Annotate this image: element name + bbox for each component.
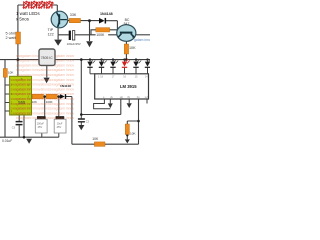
wire top LED string [18, 4, 57, 6]
svg-text:0.01uF: 0.01uF [2, 139, 12, 143]
LED bar 4 red [122, 58, 130, 73]
svg-text:swagatam innovationsswagatam i: swagatam innovationsswagatam innov [16, 68, 74, 72]
wire BC547 right to edge [136, 34, 151, 36]
svg-text:swagatam innovationsswagatam i: swagatam innovationsswagatam innov [16, 73, 74, 77]
ground arrow mid cap [78, 125, 84, 130]
diode 1N4148 mid [60, 94, 65, 99]
svg-text:100K: 100K [46, 100, 53, 104]
wire junction to 555 top [17, 60, 19, 77]
ground arrow mid [86, 41, 93, 47]
capacitor 100uF/25V [69, 31, 71, 40]
junction dot 33K-diode [88, 19, 91, 22]
svg-text:2 watt: 2 watt [6, 36, 17, 40]
label 100K with bg [96, 32, 109, 36]
svg-text:LM 3915: LM 3915 [120, 84, 137, 89]
transistor BC547 [117, 25, 136, 42]
junction dot pin5 [137, 120, 140, 123]
IC 555 [10, 76, 32, 115]
resistor 100K [96, 28, 110, 32]
LED bar 3 [110, 58, 118, 73]
svg-text:7805 IC: 7805 IC [41, 56, 53, 60]
svg-text:5 ohm: 5 ohm [6, 31, 17, 35]
resistor chain R 10K [32, 94, 43, 99]
junction dot supply [17, 58, 20, 61]
capacitor mid C2 [80, 115, 82, 119]
wire bottom run [72, 143, 139, 145]
wire diode2 out down to bottom [66, 97, 72, 145]
wire 555 output pin [32, 96, 34, 98]
LED bar 2 [99, 58, 107, 73]
svg-text:100uF: 100uF [37, 122, 45, 126]
wire signal drop x81.3 [80, 60, 82, 115]
wire branch to 10K vertical [127, 121, 138, 124]
svg-text:122: 122 [48, 32, 54, 36]
resistor chain R 100K [46, 94, 57, 99]
junction dot pin wire [80, 113, 83, 116]
svg-text:33K: 33K [70, 13, 77, 17]
wire base to 33K and diode line [67, 21, 118, 35]
LED bar 5 [133, 58, 141, 73]
capacitor A 100uF [35, 116, 47, 133]
svg-text:547: 547 [124, 22, 130, 26]
wire LM pin gnd stub [109, 99, 111, 103]
wire LM3915 ground pins [129, 99, 147, 104]
wire BC547 collector to 10K to bus [125, 41, 127, 60]
resistor 33K [69, 18, 80, 22]
wire TIP122 emitter [57, 27, 59, 35]
junction dot 10K bus [125, 58, 128, 61]
svg-text:10K: 10K [129, 46, 136, 50]
wire emitter rail to BC547 [58, 34, 117, 36]
svg-text:100K: 100K [96, 33, 105, 37]
svg-text:1 watt LEDs: 1 watt LEDs [16, 11, 40, 16]
LED bar 1 [87, 58, 95, 73]
IC 7805 [39, 49, 55, 65]
wire main horizontal bus [0, 59, 150, 61]
wire pin row horizontal [81, 99, 121, 115]
wire LED1 to LM3915 corner [90, 73, 95, 75]
wire left supply vertical [17, 5, 19, 60]
junction dot signal drop [80, 58, 83, 61]
svg-text:swagatam innovationsswagatam i: swagatam innovationsswagatam innov [16, 116, 74, 120]
ground arrow bottom left [26, 139, 32, 144]
LED bargraph row [87, 58, 150, 73]
resistor 10K bottom horizontal [94, 142, 105, 147]
ground arrow bottom right [125, 139, 130, 143]
svg-text:25V: 25V [38, 125, 43, 129]
ground arrow LM pin b [127, 103, 132, 108]
IC LM3915 [95, 74, 149, 99]
wire junction drop x89.5 [89, 21, 91, 41]
svg-text:10K: 10K [8, 71, 14, 75]
resistor 10K left column [3, 69, 7, 78]
wire 7805 ground pin [46, 65, 48, 77]
svg-text:10K: 10K [130, 131, 136, 135]
svg-text:1N4148: 1N4148 [100, 12, 113, 16]
resistor 10K below BC547 [124, 44, 128, 54]
wire LM3915 pin5 vertical [138, 99, 140, 144]
wire collector drop [56, 5, 58, 12]
svg-text:10uF: 10uF [57, 122, 63, 126]
wire bottom left bus [0, 136, 59, 138]
wire 10K bottom to ground [126, 135, 128, 140]
diode 1N4148 top [99, 18, 105, 24]
junction dot 555 pin bottom [23, 136, 26, 139]
wire 555 bottom pins [19, 115, 24, 137]
wire resistor chain joints [43, 96, 60, 98]
ground arrow 7805 [44, 78, 50, 84]
svg-text:x 5nos: x 5nos [16, 17, 30, 22]
svg-text:gatam innova: gatam innova [134, 38, 150, 42]
LED bar 6 [145, 58, 150, 73]
transistor TIP122 [51, 11, 68, 28]
ground TIP122 emitter [57, 35, 59, 40]
ground arrow LM zigzag [108, 103, 113, 108]
svg-text:v-: v- [103, 97, 105, 99]
svg-text:10K: 10K [92, 137, 99, 141]
capacitor 0.01uF bars [16, 122, 23, 125]
wire capB stub [58, 97, 60, 138]
wire left column [4, 60, 6, 138]
junction dot 10Kv bottom [126, 134, 128, 136]
svg-text:25V: 25V [57, 125, 62, 129]
wire LM pin zigzag [94, 99, 111, 109]
svg-text:1N4148: 1N4148 [60, 84, 71, 88]
junction dot chain b [58, 95, 61, 98]
LED string 1 watt (4 symbols) [23, 1, 54, 9]
capacitor B 10uF [54, 116, 66, 133]
resistor 5 ohm 2 watt [16, 32, 21, 44]
svg-text:10K: 10K [32, 100, 37, 104]
junction dot chain a [43, 95, 46, 98]
wire 100K leads [91, 30, 117, 35]
wire 555 left pins [5, 85, 10, 111]
svg-text:ref: ref [145, 96, 148, 99]
resistor 10K vertical bottom right [125, 124, 129, 135]
svg-text:100uF/25V: 100uF/25V [67, 42, 81, 46]
wire capA stub [42, 97, 45, 138]
